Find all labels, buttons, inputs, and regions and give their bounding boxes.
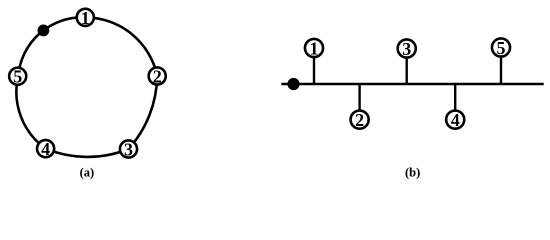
node 1 (bus) xyxy=(305,39,323,57)
bus line (b) xyxy=(281,83,543,85)
node 5 (ring) xyxy=(9,68,26,85)
svg-text:5: 5 xyxy=(497,38,506,58)
node 2 (bus) xyxy=(351,111,369,129)
node 3 (bus) xyxy=(398,39,416,57)
svg-text:(a): (a) xyxy=(80,165,95,179)
stub node 3 (bus) xyxy=(406,56,408,84)
svg-text:2: 2 xyxy=(355,110,364,130)
svg-text:1: 1 xyxy=(310,38,319,58)
svg-text:4: 4 xyxy=(451,110,460,130)
node 1 (ring) xyxy=(77,9,94,26)
node 2 (ring) xyxy=(149,67,166,84)
svg-text:4: 4 xyxy=(41,139,50,159)
svg-text:3: 3 xyxy=(124,139,133,159)
node 4 (bus) xyxy=(446,111,464,129)
svg-text:5: 5 xyxy=(13,67,22,87)
svg-text:1: 1 xyxy=(81,8,90,28)
ring curve (a) xyxy=(16,17,157,157)
node 4 (ring) xyxy=(37,140,54,157)
bus terminator dot xyxy=(287,78,299,90)
svg-text:2: 2 xyxy=(153,66,162,86)
stub node 5 (bus) xyxy=(500,56,502,84)
node 5 (bus) xyxy=(492,38,510,56)
node 3 (ring) xyxy=(120,140,137,157)
stub node 4 (bus) xyxy=(454,84,456,112)
token dot on ring xyxy=(38,25,50,37)
svg-text:3: 3 xyxy=(402,39,411,59)
stub node 2 (bus) xyxy=(358,84,360,112)
stub node 1 (bus) xyxy=(313,56,315,84)
svg-text:(b): (b) xyxy=(405,165,420,179)
